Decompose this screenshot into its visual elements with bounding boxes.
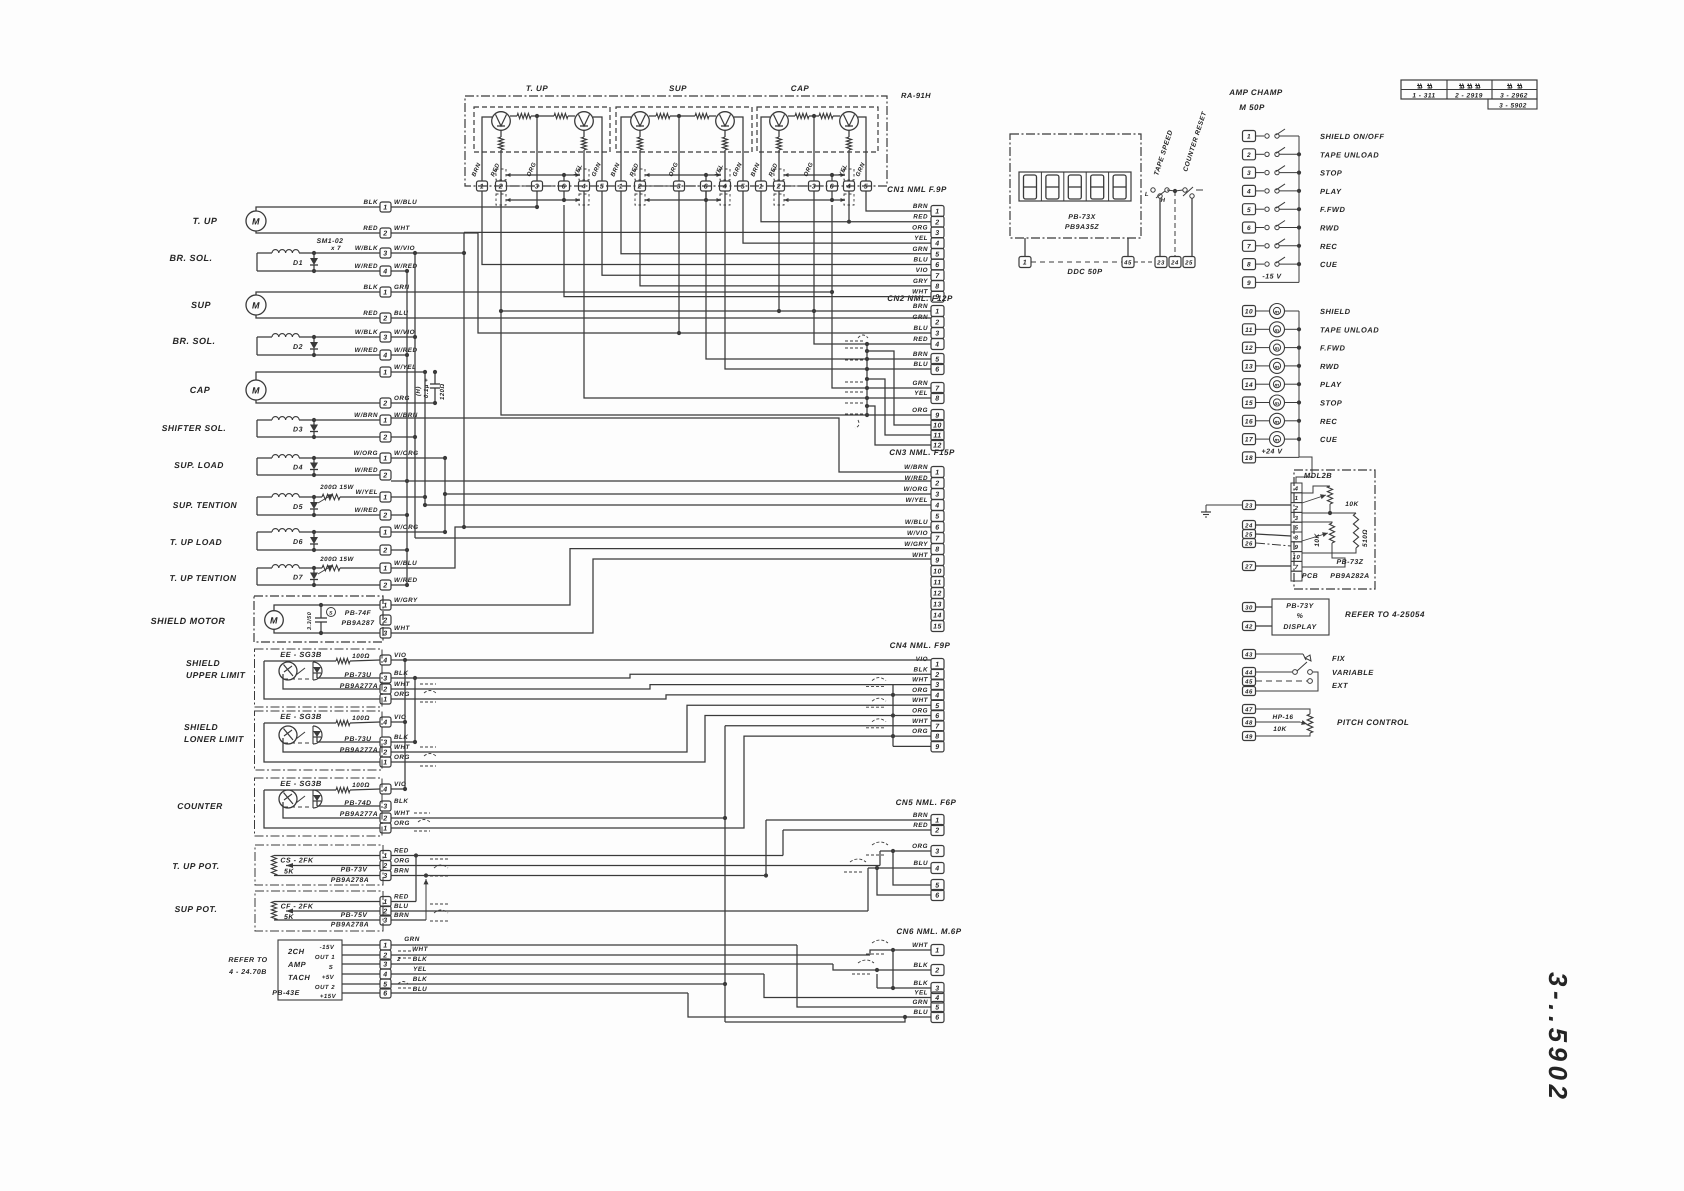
svg-text:2: 2 [382,583,387,590]
svg-text:BLK: BLK [413,956,427,963]
svg-text:6: 6 [1247,225,1251,232]
svg-text:47: 47 [1244,707,1253,714]
svg-text:PB9A277A: PB9A277A [340,747,378,754]
svg-text:30: 30 [1245,605,1253,612]
pin PB43E 3 [380,959,391,969]
wire pin-6 stub to tie bar [563,175,565,181]
svg-text:GRY: GRY [913,278,928,285]
svg-text:PB9A282A: PB9A282A [1330,573,1369,580]
svg-text:25: 25 [1244,532,1253,539]
pin CN5-1 [931,815,944,826]
svg-text:3 - 2962: 3 - 2962 [1500,93,1528,100]
svg-text:5: 5 [1295,525,1299,532]
svg-text:42: 42 [1244,624,1253,631]
svg-text:510Ω: 510Ω [1362,529,1369,547]
wire b2 pin2 to CN1-8 [640,191,931,286]
switch TAPE SPEED L/H [1151,188,1155,192]
svg-text:PB-73U: PB-73U [344,736,372,743]
wire SUP.TENTION-1 W/YEL stub [391,496,425,498]
pin CN3-15 [931,621,944,632]
svg-text:2: 2 [776,184,781,191]
svg-text:4: 4 [1294,485,1299,492]
module MDL2B dash-dot box [1294,470,1375,589]
svg-text:6: 6 [830,184,834,191]
shield cable bundle at CN2 : drain bus x867 [866,344,868,415]
transistor Q (right) [575,112,594,131]
potentiometer 10K lower rotated label [1329,523,1334,543]
wire pin-6 stub to tie bar [705,175,707,181]
svg-text:REFER TO: REFER TO [228,957,267,964]
wire BLK bus x415 UPPER-3/LONER-3 to CN4-2 [391,677,415,679]
svg-text:3: 3 [383,335,387,342]
pin CN5-4 [931,863,944,874]
svg-text:SHIELD: SHIELD [1320,307,1351,316]
svg-text:4: 4 [382,353,387,360]
svg-text:D2: D2 [293,344,303,351]
svg-text:BLK: BLK [914,962,928,969]
seven-segment display window [1019,172,1131,201]
wire collector left to pin 1 [482,117,492,181]
svg-text:10K: 10K [1345,501,1359,508]
connector mate dashes upper [635,169,645,180]
svg-text:BLU: BLU [413,986,427,993]
block PB-73Y % DISPLAY [1272,599,1329,635]
svg-text:TAPE UNLOAD: TAPE UNLOAD [1320,325,1379,334]
svg-text:EE - SG3B: EE - SG3B [280,712,322,721]
wire collector left to pin 1 [621,117,631,181]
svg-text:SUP POT.: SUP POT. [175,904,218,914]
connector mate dashes lower [635,194,645,205]
svg-text:m: m [1275,310,1280,316]
pin AMP-10 with lamp, SHIELD [1243,306,1256,317]
wire tie bar below pins [506,199,580,201]
pin AMP-6 with switch, RWD [1243,222,1256,233]
wire pin24 to strip pin5 [1256,524,1291,526]
svg-text:WHT: WHT [412,946,428,953]
svg-text:YEL: YEL [914,390,928,397]
svg-text:x 7: x 7 [330,245,341,252]
wire counter reset to pin 25 [1191,198,1193,257]
svg-text:1: 1 [383,760,387,767]
svg-text:D7: D7 [293,575,304,582]
wire b2 pin1 to CN1-5 [621,191,931,254]
svg-text:PB-73Y: PB-73Y [1286,603,1314,610]
svg-text:100Ω: 100Ω [352,715,370,722]
svg-text:PB-73X: PB-73X [1068,214,1096,221]
svg-text:10K: 10K [1273,726,1287,733]
pin SUP 1 [380,287,391,297]
wire b2 pin3 down to CN2-3 junction [678,191,680,333]
resistor base left [510,115,517,117]
svg-text:10: 10 [1293,554,1301,561]
svg-text:AMP: AMP [287,960,307,969]
wire pin27 to strip pin7 [1256,565,1291,567]
svg-text:CAP: CAP [190,385,211,395]
svg-text:9: 9 [1295,544,1299,551]
svg-text:13: 13 [1245,364,1253,371]
wire b1 pin2 vertical to CN2-9 [501,191,931,415]
pin CN3-7 [931,533,944,544]
svg-text:PB9A278A: PB9A278A [331,877,369,884]
wire T.UP.POT-2 ORG to CN5-3 [391,865,880,867]
svg-text:W/YEL: W/YEL [394,364,416,371]
svg-text:18: 18 [1245,455,1253,462]
svg-text:SUP. TENTION: SUP. TENTION [173,500,238,510]
svg-text:1: 1 [383,456,387,463]
svg-text:SHIELD MOTOR: SHIELD MOTOR [151,616,226,626]
svg-text:ORG: ORG [912,843,928,850]
svg-text:6: 6 [935,525,939,532]
svg-text:GRN: GRN [913,380,929,387]
svg-text:43: 43 [1244,652,1253,659]
potentiometer HP-16 [1307,714,1313,733]
resistor 510 ohm [1330,512,1356,514]
svg-text:4: 4 [934,241,939,248]
pin AMP-15 with lamp, STOP [1243,397,1256,408]
svg-text:1: 1 [383,826,387,833]
svg-text:46: 46 [1244,689,1253,696]
wire pin26 to strip pin9 dash-dot [1256,543,1291,546]
svg-text:BLK: BLK [394,734,408,741]
pin CN4-8 [931,731,944,742]
svg-text:8: 8 [935,734,939,741]
svg-text:7: 7 [1295,564,1299,571]
pin 6 [559,181,570,191]
pin CN3-11 [931,577,944,588]
pin TUPPOT 3 [380,871,391,881]
svg-text:CUE: CUE [1320,260,1338,269]
svg-text:SHIELD ON/OFF: SHIELD ON/OFF [1320,132,1384,141]
pin 3 [809,181,820,191]
display module PB-73X dash-dot box [1010,134,1141,238]
pin TUPPOT 2 [380,861,391,871]
pin CN6-3 [931,983,944,994]
pin SUP.TENTION 1 [380,492,391,502]
pin CN2-3 [931,328,944,339]
svg-text:15: 15 [933,624,942,631]
svg-text:WHT: WHT [394,810,410,817]
wire b3 pin2 down to CN2-1 junction [778,191,780,311]
wire b3 pin1 to CN1-2 [761,191,931,222]
pin CN3-5 [931,511,944,522]
resistor emitter right [583,130,585,137]
svg-text:120Ω: 120Ω [439,383,446,400]
svg-text:BRN: BRN [913,351,928,358]
wire SUP.POT-3 BRN link arrow x426 [391,919,426,921]
svg-text:PITCH CONTROL: PITCH CONTROL [1337,718,1409,727]
wire COUNTER-2 WHT to CN4-7 long vertical x725 [391,817,725,819]
svg-text:-15V: -15V [320,944,335,951]
svg-text:1: 1 [1295,495,1299,502]
svg-text:TAPE UNLOAD: TAPE UNLOAD [1320,150,1379,159]
resistor emitter left [500,130,502,137]
strip pin 4 [1291,483,1302,493]
pin CN2-10 [931,420,944,431]
title block table [1401,80,1537,99]
pin CN1-5 GRN [931,248,944,259]
svg-text:BLK: BLK [394,670,408,677]
svg-text:SHIELD: SHIELD [186,658,220,668]
pin CN1-8 GRY [931,280,944,291]
svg-text:3: 3 [383,918,387,925]
pin DDC 45 [1122,257,1134,268]
svg-text:YEL: YEL [413,966,427,973]
svg-text:3 - 5902: 3 - 5902 [1499,103,1527,110]
wire SUP.POT-2 BLU to CN5-4 [391,910,868,912]
svg-text:BLU: BLU [394,903,408,910]
wire pin42 to display [1256,625,1272,627]
wire driver b1 pin3 vertical [536,191,538,207]
svg-text:PB-43E: PB-43E [272,990,300,997]
wire tie bar above pins [506,174,580,176]
svg-text:SUP: SUP [669,84,687,93]
bus wire lamps common [1298,311,1300,457]
wire collector right to pin 5 [858,117,866,181]
svg-text:2: 2 [934,219,939,226]
svg-text:15: 15 [1245,400,1253,407]
wire T.UP.TENTION-2 W/RED stub [391,584,407,586]
pin SUPPOT 2 [380,906,391,916]
svg-text:BLK: BLK [413,976,427,983]
pin 48 [1243,718,1256,727]
svg-text:W/RED: W/RED [355,467,379,474]
svg-text:5: 5 [600,184,604,191]
pin 42 [1243,622,1256,631]
svg-text:1: 1 [1023,260,1027,267]
wire base junction to pin 3 [678,116,680,181]
svg-text:BLK: BLK [914,980,928,987]
svg-text:6: 6 [935,262,939,269]
svg-text:W/BRN: W/BRN [904,464,928,471]
svg-text:W/YEL: W/YEL [356,489,378,496]
svg-text:PB9A277A: PB9A277A [340,683,378,690]
pin CN5-2 [931,825,944,836]
svg-text:SHIFTER SOL.: SHIFTER SOL. [162,423,227,433]
svg-text:(H): (H) [415,386,422,396]
svg-text:5: 5 [935,357,939,364]
svg-text:6: 6 [935,713,939,720]
svg-text:5: 5 [864,184,868,191]
pin CN3-12 [931,588,944,599]
svg-text:M: M [252,300,260,310]
wire LONER-1 ORG to CN4-6 [391,716,931,763]
wire tie bar below pins [645,199,721,201]
svg-text:W/YEL: W/YEL [906,497,928,504]
wire W/YEL bus x425 [391,371,425,373]
svg-text:W/BLU: W/BLU [394,199,417,206]
pin CN1-9 WHT [931,291,944,302]
svg-text:1: 1 [383,370,387,377]
svg-text:W/RED: W/RED [355,347,379,354]
wire b1 pin5 to CN1-7 [602,191,931,275]
wire common to pin 24 dashed [1173,189,1177,193]
pin LONER 1 [380,757,391,767]
pin T.UP 1 [380,202,391,212]
shield dashed arcs at CN4 [872,678,886,681]
svg-text:5: 5 [935,883,939,890]
svg-text:1 - 311: 1 - 311 [1412,93,1435,100]
svg-text:FIX: FIX [1332,654,1346,663]
svg-text:BRN: BRN [913,203,928,210]
wire PB43E-6 BLU to CN6-6 [391,992,688,994]
wire T.UP.POT-3 BRN to CN5-1 [391,875,766,877]
svg-text:5K: 5K [284,869,294,876]
cable dashed marks counter pair [414,812,430,814]
svg-text:ORG: ORG [912,407,928,414]
connector mate dashes lower [774,194,784,205]
svg-text:1: 1 [1247,134,1251,141]
svg-text:BRN: BRN [913,303,928,310]
svg-text:D1: D1 [293,260,303,267]
wire SUP.TENTION-2 W/RED stub [391,514,407,516]
pin CN3-14 [931,610,944,621]
pin CN2-4 [931,339,944,350]
svg-text:VARIABLE: VARIABLE [1332,668,1374,677]
shield motor block dash-dot outline [254,596,383,642]
strip pin 8 [1291,532,1302,542]
strip pin 1 [1291,493,1302,503]
pin CN2-9 [931,410,944,421]
svg-text:2: 2 [382,816,387,823]
strip pin 7 [1291,561,1302,571]
svg-text:D6: D6 [293,539,303,546]
svg-text:ORG: ORG [912,708,928,715]
pin 30 [1243,603,1256,612]
svg-text:m: m [1275,438,1280,444]
svg-text:4: 4 [934,866,939,873]
svg-text:1: 1 [759,184,763,191]
svg-text:RWD: RWD [1320,362,1339,371]
pin 43 [1243,650,1256,659]
svg-text:YEL: YEL [914,990,928,997]
svg-text:BLK: BLK [914,666,928,673]
svg-text:1: 1 [383,603,387,610]
svg-text:BRN: BRN [394,868,409,875]
pin 5 [597,181,608,191]
pin T.UP.LOAD 2 [380,545,391,555]
svg-text:0.1µ +: 0.1µ + [423,378,430,398]
svg-text:T. UP TENTION: T. UP TENTION [170,573,237,583]
svg-text:m: m [1275,346,1280,352]
svg-text:2: 2 [382,513,387,520]
resistor base left [788,115,795,117]
svg-text:YEL: YEL [914,235,928,242]
pin SHIFTER 2 [380,432,391,442]
pin DDC 25 [1183,257,1195,268]
svg-text:6: 6 [383,991,387,998]
transistor Q (left) [492,112,511,131]
pin SUPPOT 3 [380,915,391,925]
svg-text:27: 27 [1244,564,1253,571]
pin 5 [861,181,872,191]
bus wire switches common [1298,136,1300,282]
pin CN4-7 [931,720,944,731]
svg-text:4: 4 [1246,189,1251,196]
svg-text:44: 44 [1244,670,1253,677]
svg-text:VIO: VIO [394,652,406,659]
wire collector right to pin 5 [734,117,743,181]
svg-text:5: 5 [1247,207,1251,214]
wire bus hook to CN2-10 [867,351,931,425]
svg-text:W/BLU: W/BLU [394,560,417,567]
svg-text:1: 1 [619,184,623,191]
pin AMP-1 with switch, SHIELD ON/OFF [1243,131,1256,142]
svg-text:M 50P: M 50P [1239,103,1265,112]
resistor base right [554,113,568,118]
svg-text:49: 49 [1244,734,1253,741]
pin DDC 24 [1169,257,1181,268]
svg-text:3: 3 [383,804,387,811]
wire b2 pin4 to CN2-5 [706,191,931,359]
wire T.UP motor to pin 2 [256,231,380,233]
pin CN4-1 [931,659,944,670]
svg-text:45: 45 [1123,260,1132,267]
svg-text:2: 2 [934,320,939,327]
svg-text:2: 2 [1246,152,1251,159]
pin CN3-4 [931,500,944,511]
wire pin44 to common contact [1256,671,1292,673]
pin SUPPOT 1 [380,897,391,907]
pin BR.SOL2 3 [380,332,391,342]
svg-text:RED: RED [363,225,378,232]
svg-text:4 - 24.70B: 4 - 24.70B [228,969,267,976]
pin COUNTER 4 [380,784,391,794]
svg-text:SUP: SUP [191,300,212,310]
strip pin 9 [1291,542,1302,552]
svg-text:6: 6 [935,1015,939,1022]
svg-text:WHT: WHT [912,677,928,684]
svg-text:3: 3 [383,631,387,638]
shield dashed arcs at CN5 [872,842,888,845]
pin 25 external [1243,530,1256,539]
wire PB43E-3 BLK to CN6-2 [391,963,833,965]
wire W/RED bus vertical x407 [406,271,408,585]
cable dashed marks sup pot [430,903,448,905]
pin AMP-14 with lamp, PLAY [1243,379,1256,390]
svg-text:m: m [1275,328,1280,334]
svg-text:1: 1 [383,899,387,906]
svg-text:%: % [1297,613,1304,620]
potentiometer 10K upper [1327,486,1332,504]
svg-text:H: H [1161,197,1166,204]
svg-text:7: 7 [935,273,940,280]
pin T.UP.TENTION 1 [380,563,391,573]
pin CN4-2 [931,669,944,680]
pin CN3-6 [931,522,944,533]
svg-text:3-..5902: 3-..5902 [1543,972,1573,1103]
pin CN3-8 [931,544,944,555]
svg-text:CN5 NML. F6P: CN5 NML. F6P [896,798,957,807]
wire CN3-7 W/VIO horizontal [415,537,931,539]
svg-text:m: m [1275,419,1280,425]
pin CN6-4 [931,992,944,1003]
svg-text:BRN: BRN [913,812,928,819]
pin AMP-13 with lamp, RWD [1243,360,1256,371]
svg-text:CUE: CUE [1320,435,1338,444]
pin CN1-6 BLU [931,259,944,270]
wire BR.SOL2-3 W/VIO stub [391,336,415,338]
pin CN2-5 [931,354,944,365]
svg-text:CAP: CAP [791,84,810,93]
svg-text:11: 11 [933,433,941,440]
dashed link DDC 1 to 45 [1031,261,1122,263]
svg-text:1: 1 [383,697,387,704]
wire SUP.LOAD-1 W/ORG stub [391,457,445,459]
wire b3 pin4 vertical join [848,191,850,222]
pin CN1-4 YEL [931,238,944,249]
pin 24 external [1243,521,1256,530]
wire pot2 bottom to strip pin10 [1302,543,1345,567]
